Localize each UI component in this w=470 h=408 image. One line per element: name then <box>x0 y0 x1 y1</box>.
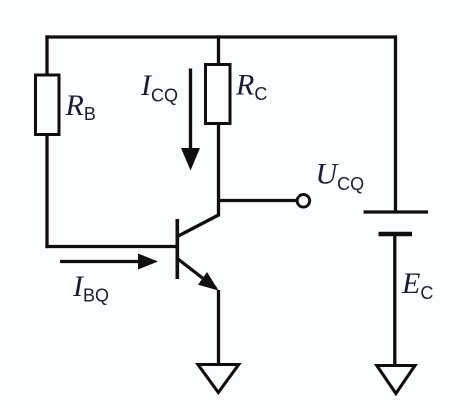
base bar <box>176 219 180 279</box>
battery EC positive plate (long) <box>364 210 429 213</box>
terminal node UCQ (open circle) <box>297 195 310 208</box>
current arrow IBQ <box>60 254 158 270</box>
wire: right vertical (battery bottom) <box>393 234 396 366</box>
transistor Q1 <box>177 215 219 291</box>
battery EC negative plate (short) <box>379 232 413 237</box>
wire: emitter vertical <box>217 290 220 365</box>
ground (battery) <box>377 366 415 394</box>
wire: collector vertical (RC branch) <box>217 35 220 216</box>
ground (emitter) <box>198 365 239 393</box>
resistor RC <box>206 65 231 124</box>
wire: top horizontal rail <box>45 35 396 38</box>
wire: base wire <box>45 245 177 248</box>
collector diagonal <box>177 215 219 237</box>
wire: collector output stub <box>219 199 297 202</box>
emitter arrowhead <box>198 272 219 291</box>
wire: right vertical (battery top) <box>394 35 397 211</box>
wire: left vertical (RB branch) <box>45 35 48 248</box>
current arrow ICQ <box>181 69 200 171</box>
resistor RB <box>36 75 60 135</box>
emitter diagonal <box>177 259 216 289</box>
